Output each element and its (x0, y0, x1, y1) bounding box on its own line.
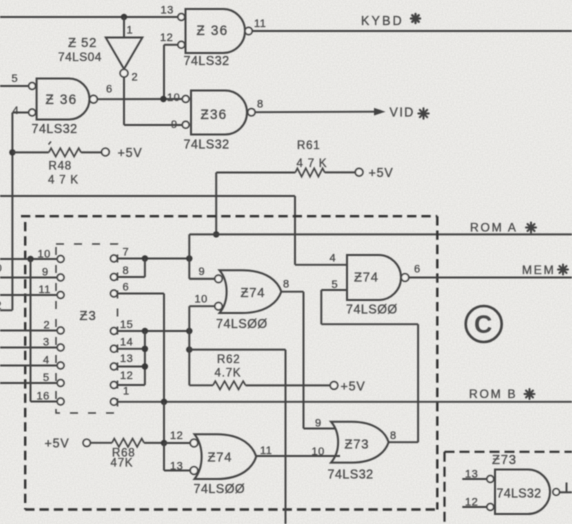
svg-text:74LS32: 74LS32 (184, 54, 230, 68)
label Z74 first (241, 285, 266, 300)
node pin15 junction a (142, 328, 148, 334)
wire ROM B net (118, 401, 572, 403)
svg-text:13: 13 (170, 461, 183, 473)
gate Z36 left (37, 79, 90, 120)
svg-text:10: 10 (38, 249, 51, 261)
node A junction (121, 14, 127, 20)
output bubble Z73b (553, 489, 560, 496)
node pin6/ROMB junction (161, 399, 167, 405)
svg-text:47K: 47K (111, 458, 134, 470)
svg-text:15: 15 (120, 319, 133, 331)
pin 16 label Z3 left (37, 391, 50, 403)
node pin14 junction (142, 346, 148, 352)
wire output11 to Z73 pin10 (256, 455, 340, 457)
wire R62 left leg (188, 331, 190, 385)
wire Z3 pin3 net (0, 347, 57, 349)
input bubble pin13 (178, 14, 185, 21)
svg-text:8: 8 (257, 99, 264, 111)
pin 12 label Z3 right (120, 370, 133, 382)
label R61 (297, 140, 321, 152)
wire pin13 Z73b (462, 478, 487, 480)
resistor R61 (295, 168, 324, 176)
inner dashed box left (443, 452, 445, 524)
+5V terminal mid (330, 380, 365, 394)
pin 4 label Z74 (330, 253, 337, 265)
svg-text:4: 4 (330, 253, 337, 265)
svg-text:74LS32: 74LS32 (328, 468, 374, 482)
input bubble pin12 (178, 41, 185, 48)
pin 4 label (13, 105, 20, 117)
wire pin10 to pin16 (31, 259, 58, 402)
svg-text:14: 14 (120, 337, 133, 349)
svg-text:R62: R62 (217, 354, 241, 366)
resistor R62 (213, 381, 246, 389)
wire to R62 (189, 384, 213, 386)
svg-text:2: 2 (44, 320, 51, 332)
svg-text:8: 8 (283, 279, 290, 291)
pin 4 circle Z3 left (57, 362, 64, 369)
input bubble pin12 Z74 (190, 439, 198, 447)
pin 7 circle Z3 right (111, 255, 118, 262)
label 74LS00 first (216, 317, 268, 331)
svg-text:8: 8 (123, 265, 130, 277)
op-amp U? inverter Z52 (106, 38, 143, 78)
label 74LS32 z73 (328, 468, 374, 482)
wire pin9 bubble link (189, 278, 215, 280)
svg-text:4 7 K: 4 7 K (48, 175, 79, 187)
dashed box right edge (436, 216, 438, 509)
value 4.7K R62 (215, 368, 242, 380)
svg-text:+5V: +5V (118, 146, 143, 160)
svg-text:9: 9 (171, 119, 178, 131)
pin 1 circle Z3 right (111, 398, 118, 405)
wire pin13 link (164, 443, 191, 471)
net label KYBD (361, 14, 420, 28)
pin 6 circle Z3 right (111, 290, 118, 297)
svg-text:10: 10 (312, 446, 325, 458)
wire pin 5 (0, 85, 29, 87)
svg-text:1: 1 (123, 386, 130, 398)
wire ROMA down to pin9 (189, 234, 215, 278)
wire Z3 pin5 net (0, 382, 57, 384)
wire R62 branch right (189, 350, 285, 524)
pin 11 circle Z3 left (57, 292, 64, 299)
svg-text:1: 1 (127, 25, 134, 37)
svg-text:5: 5 (43, 372, 50, 384)
gate Z73 second body (495, 470, 550, 515)
wire KYBD net (252, 30, 572, 32)
pin 8 label Z73 (390, 430, 397, 442)
pin 2 label Z3 left (44, 320, 51, 332)
output bubble pin6 (90, 95, 98, 103)
pin 4 label Z3 left (43, 355, 50, 367)
wire Z73b output (560, 491, 572, 493)
node R48 junction (9, 149, 15, 155)
pin 12 label Z74b (170, 430, 183, 442)
net label VID (390, 106, 429, 120)
svg-text:R61: R61 (297, 140, 321, 152)
pin 14 label Z3 right (120, 337, 133, 349)
wire ROMB down to R68 node (163, 402, 165, 443)
svg-text:+5V: +5V (369, 166, 394, 180)
wire pin12 to node B (164, 45, 178, 99)
pin 8 label Z74 (283, 279, 290, 291)
svg-text:74LS04: 74LS04 (58, 50, 102, 64)
net label ROM A (470, 221, 536, 235)
wire pins7/8 net (117, 258, 189, 260)
svg-text:12: 12 (465, 497, 478, 509)
+5V terminal bottom-left (45, 437, 91, 451)
svg-text:10: 10 (195, 294, 208, 306)
pin 2 label Z52 (132, 72, 139, 84)
wire Z3 pin9 net (0, 277, 57, 279)
wire net-A top (0, 16, 178, 18)
wire output6 to node B (97, 98, 182, 100)
svg-text:74LSØØ: 74LSØØ (194, 482, 246, 496)
wire R68 to node (144, 442, 164, 444)
svg-text:6: 6 (106, 84, 113, 96)
svg-text:74LS32: 74LS32 (497, 487, 542, 501)
svg-text:74LS32: 74LS32 (32, 122, 78, 136)
node R61/ROMA junction (213, 231, 219, 237)
pin 11 label Z3 left (39, 284, 51, 296)
svg-text:3: 3 (43, 337, 50, 349)
wire pins14/13/12 chain (117, 331, 145, 385)
label 74LS32 right (184, 138, 230, 152)
svg-text:9: 9 (199, 266, 206, 278)
wire pin6 net down to ROM B (117, 294, 164, 402)
inner dashed box top (445, 451, 572, 453)
label R68 (112, 448, 136, 460)
pin 13 label Z3 right (120, 353, 133, 365)
input bubble pin9 (182, 121, 189, 128)
cut-off label left 0 (0, 263, 2, 275)
gate Z36 top (OR as NAND w/ bubbles) (186, 9, 246, 53)
stray tick mark (49, 142, 52, 145)
svg-text:13: 13 (120, 353, 133, 365)
label Z36 right (201, 107, 228, 122)
gate Z74 first (220, 270, 282, 313)
svg-text:11: 11 (39, 284, 51, 296)
svg-text:7: 7 (123, 247, 130, 259)
input bubble pin10 (182, 96, 189, 103)
svg-text:74LS32: 74LS32 (184, 138, 230, 152)
label 74LS32 top (184, 54, 230, 68)
pin 14 circle Z3 right (111, 345, 118, 352)
pin 9 label Z74 (199, 266, 206, 278)
svg-text:2: 2 (0, 300, 2, 312)
svg-text:ROM A: ROM A (470, 221, 518, 235)
node pin13 junction (142, 363, 148, 369)
pin 2 circle Z3 left (57, 327, 64, 334)
pin 10 label Z73 (312, 446, 325, 458)
svg-text:6: 6 (414, 264, 421, 276)
input bubble pin4 (29, 109, 36, 116)
label 74LS32 left (32, 122, 78, 136)
pin 10 label Z74 (195, 294, 208, 306)
net label MEM (522, 263, 568, 277)
svg-text:4.7K: 4.7K (215, 368, 242, 380)
svg-text:12: 12 (170, 430, 183, 442)
wire R62 to +5V (246, 384, 331, 386)
svg-text:9: 9 (42, 267, 49, 279)
pin 12 label Z73b (465, 497, 478, 509)
label Z36 left (46, 92, 78, 107)
node R68 junction (161, 440, 167, 446)
wire pin8 link (117, 259, 145, 278)
svg-text:2: 2 (132, 72, 139, 84)
pin 7 label Z3 right (123, 247, 130, 259)
pin 15 circle Z3 right (111, 328, 118, 335)
label Z73 second (492, 452, 517, 467)
node B junction (160, 96, 166, 102)
svg-text:12: 12 (120, 370, 133, 382)
svg-text:10: 10 (167, 92, 180, 104)
svg-text:8: 8 (390, 430, 397, 442)
svg-text:VID: VID (390, 106, 415, 120)
svg-text:13: 13 (161, 5, 174, 17)
connector Z3 outline (56, 244, 118, 413)
wire Z3 pin4 net (0, 365, 57, 367)
node pin10 junction (27, 256, 33, 262)
wire Z3 pin11 net (0, 294, 57, 296)
net label ROM B (469, 387, 535, 401)
svg-text:4: 4 (43, 355, 50, 367)
output bubble pin6 Z74 (401, 274, 409, 282)
pin 6 label MEM (414, 264, 421, 276)
gate Z36 right (191, 91, 247, 135)
wire ROM A net (189, 233, 572, 235)
wire inverter output (124, 77, 182, 125)
pin 5 label Z3 left (43, 372, 50, 384)
svg-text:Z3: Z3 (80, 308, 97, 323)
svg-text:74LSØØ: 74LSØØ (216, 317, 268, 331)
pin 9 label Z73 (315, 418, 322, 430)
value 47K R68 (111, 458, 134, 470)
svg-text:R48: R48 (49, 161, 73, 173)
cut-off label left 2 (0, 300, 2, 312)
label 74LS04 (58, 50, 102, 64)
input bubble pin9 Z74 (215, 275, 222, 282)
pin 11 label Z74b (260, 445, 272, 457)
input bubble pin13 Z73b (487, 476, 494, 483)
dashed box bottom edge (25, 508, 437, 510)
pin 6 label (106, 84, 113, 96)
wire pin5 to Z73 output8 (321, 290, 418, 442)
wire pin12 Z73b (462, 506, 487, 508)
input bubble pin12 Z73b (487, 504, 494, 511)
pin 10 label (167, 92, 180, 104)
svg-text:+5V: +5V (45, 437, 70, 451)
wire R61 to +5V (325, 171, 356, 173)
svg-text:ROM B: ROM B (469, 387, 517, 401)
pin 3 label Z3 left (43, 337, 50, 349)
node ROMA/pin9 junction (186, 255, 192, 261)
node pin15 junction b (186, 328, 192, 334)
gate Z73 first (331, 422, 389, 463)
wire +5V to R68 (90, 442, 112, 444)
label Z3 (80, 308, 97, 323)
pin 10 label Z3 left (38, 249, 51, 261)
svg-text:4: 4 (13, 105, 20, 117)
wire inverter input (123, 17, 125, 38)
resistor R68 (112, 439, 144, 447)
node pin7 junction (142, 255, 148, 261)
pin 8 circle Z3 right (111, 274, 118, 281)
pin 15 label Z3 right (120, 319, 133, 331)
pin 8 label (257, 99, 264, 111)
gate Z74 second (347, 255, 401, 300)
output bubble pin11 (245, 27, 252, 34)
pin 1 label Z52 (127, 25, 134, 37)
+5V terminal left-top (102, 146, 143, 160)
input bubble pin5 (29, 83, 36, 90)
wire long net to pin4 (0, 196, 347, 265)
label 74LS32 inside (497, 487, 542, 501)
label R62 (217, 354, 241, 366)
output bubble pin8 (248, 109, 255, 116)
input bubble pin10 Z74 (215, 303, 222, 310)
pin 12 label (160, 32, 173, 44)
resistor R48 (49, 148, 81, 156)
label Z74 third (208, 450, 233, 465)
wire R48 to +5V (81, 151, 102, 153)
svg-text:C: C (474, 311, 492, 339)
wire pin12 link (164, 442, 191, 444)
pin 16 circle Z3 left (57, 398, 64, 405)
pin 1 label Z3 right (123, 386, 130, 398)
wire to R48 (12, 151, 48, 153)
value 4.7K R61 (297, 158, 328, 170)
svg-text:13: 13 (465, 469, 478, 481)
pin 5 label Z74 (332, 279, 339, 291)
wire pin15 net (117, 330, 189, 332)
pin 9 label Z3 left (42, 267, 49, 279)
pin 8 label Z3 right (123, 265, 130, 277)
label 74LS00 third (194, 482, 246, 496)
input bubble pin13 Z74 (190, 467, 198, 475)
pin 10 circle Z3 left (57, 256, 64, 263)
pin 13 label Z73b (465, 469, 478, 481)
pin 11 label (254, 18, 266, 30)
wire pin4 down-left exit (0, 113, 29, 311)
label Z52 (68, 35, 97, 50)
wire MEM net (409, 277, 572, 279)
wire R61 down to ROM A (215, 173, 217, 235)
pin 5 circle Z3 left (57, 380, 64, 387)
gate Z74 third (195, 434, 257, 479)
svg-text:16: 16 (37, 391, 50, 403)
wire Z3 pin10 net (0, 258, 57, 260)
wire VID net with arrow (255, 108, 386, 116)
wire pin10 bubble link (189, 306, 215, 331)
wire Z3 pin2 net (0, 330, 57, 332)
label 74LS00 second (346, 303, 398, 317)
wire output8 to Z73 pin9 (281, 292, 336, 429)
pin 13 circle Z3 right (111, 363, 118, 370)
svg-text:11: 11 (254, 18, 266, 30)
value 4.7K R48 (48, 175, 79, 187)
svg-text:6: 6 (123, 282, 130, 294)
pin 9 label (171, 119, 178, 131)
pin 5 label (12, 73, 19, 85)
svg-text:9: 9 (315, 418, 322, 430)
label Z36 top (197, 23, 229, 38)
wire R61 left (216, 172, 295, 174)
svg-text:KYBD: KYBD (361, 14, 404, 28)
pin 3 circle Z3 left (57, 344, 64, 351)
svg-text:0: 0 (0, 263, 2, 275)
dashed box top edge (21, 215, 437, 217)
label Z73 first (345, 437, 370, 452)
dashed box left edge (24, 222, 26, 510)
circled C mark (466, 306, 502, 342)
pin 6 label Z3 right (123, 282, 130, 294)
pin 13 label (161, 5, 174, 17)
svg-text:12: 12 (160, 32, 173, 44)
pin 12 circle Z3 right (111, 382, 118, 389)
+5V terminal top-right (355, 166, 393, 180)
svg-text:+5V: +5V (341, 380, 366, 394)
pin 13 label Z74b (170, 461, 183, 473)
pin 9 circle Z3 left (57, 274, 64, 281)
svg-text:74LSØØ: 74LSØØ (346, 303, 398, 317)
label R48 (49, 161, 73, 173)
svg-text:MEM: MEM (522, 263, 555, 277)
svg-text:5: 5 (12, 73, 19, 85)
label Z74 second (354, 270, 379, 285)
node R62 junction (186, 346, 192, 352)
cut-off label right 1 (566, 483, 568, 493)
